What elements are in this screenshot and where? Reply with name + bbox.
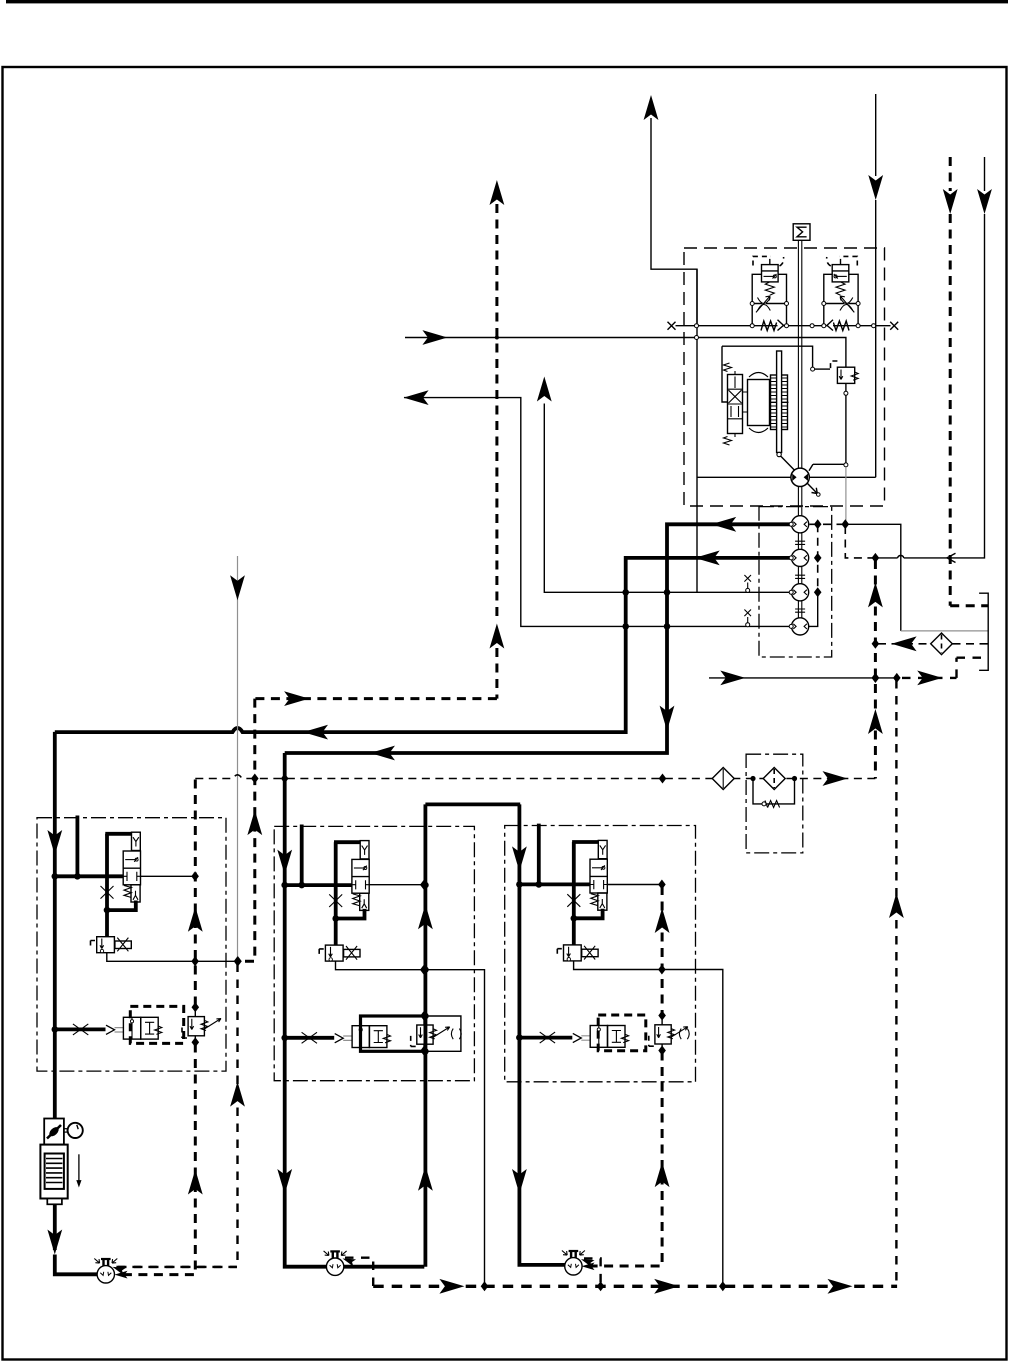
- node filter outlet: [792, 776, 797, 781]
- main variable pump P0: [791, 468, 809, 486]
- wire: block2 rail: [285, 883, 352, 887]
- arrow drain up b3b: [655, 1162, 670, 1187]
- pump group chain enclosure: [759, 507, 832, 657]
- node Pi branch: [842, 519, 850, 529]
- pilot riser vertical: [495, 204, 498, 622]
- wire: block3 supply feed: [519, 804, 565, 1265]
- variable throttle: [758, 298, 771, 311]
- drain column block1: [117, 780, 196, 1275]
- node pilot x662: [659, 774, 667, 784]
- junction node: [622, 623, 629, 630]
- arrow into motor M1: [111, 1263, 126, 1275]
- wire: drain D to node: [877, 557, 898, 559]
- drain wire to bracket: [902, 658, 988, 678]
- block 1 internals: [55, 832, 221, 1047]
- arrow: pilot up: [868, 582, 883, 607]
- node on pilot main: [872, 553, 880, 563]
- node Pi-P2: [814, 553, 822, 563]
- wire: regulator pilot rail: [676, 325, 891, 327]
- arrow: return up b2b: [418, 1166, 433, 1191]
- fan motor M2: [324, 1251, 347, 1276]
- node Pi-P3: [814, 587, 822, 597]
- arrow on P1 line: [711, 517, 736, 532]
- servo cylinder body: [748, 380, 770, 426]
- arrow: line A to other sheet (up): [644, 95, 659, 120]
- gear pump P1: [792, 516, 809, 533]
- node Pi-P1: [814, 519, 822, 529]
- cooler bypass valve: [44, 1119, 64, 1145]
- pilot wire C vertical: [949, 214, 952, 606]
- pressure reducing valve unit (left): [750, 256, 788, 327]
- dashed bracket: [753, 256, 771, 265]
- arrow: pilot drop up: [247, 810, 262, 835]
- junction block3 rail: [516, 881, 523, 888]
- wire: line A from regulator housing: [651, 118, 697, 323]
- wire: P4 drain stub: [809, 592, 818, 626]
- wire hop over vertical line: [898, 555, 904, 557]
- arrow on P2 line: [695, 551, 720, 566]
- connector bracket to other sheet: [979, 593, 988, 670]
- wire: servo feedback lines: [722, 346, 813, 402]
- gear pump P2: [792, 549, 809, 566]
- drain wire motor M1 upper: [118, 1266, 237, 1268]
- valve square: [762, 265, 779, 282]
- node pilot x255: [251, 774, 259, 784]
- arrow: P4 line left: [404, 390, 429, 405]
- circles on rail: [750, 324, 754, 328]
- arrow on pilot link: [284, 691, 309, 706]
- wire: external pilot line to relief: [405, 338, 846, 368]
- pilot supply wire y778: [195, 775, 875, 779]
- wire: P4 line: [404, 398, 791, 627]
- block1 valve dashed box: [130, 1006, 183, 1043]
- arrow: drain wire D down: [977, 189, 992, 214]
- regulator dashed enclosure: [684, 248, 885, 506]
- bypass valve poppet: [762, 802, 766, 806]
- drain wire motor M3 upper: [584, 1259, 601, 1287]
- arrow: pilot riser to top: [490, 180, 505, 205]
- drain wire D vertical and left run: [949, 214, 985, 558]
- fan motor M1: [94, 1259, 117, 1284]
- wire: drain line y678: [709, 677, 897, 679]
- block 2 internals: [284, 841, 450, 1056]
- block2 valve solid box: [361, 1016, 426, 1051]
- wire: filter bypass loop: [753, 779, 795, 804]
- wire: drain extension b1: [197, 960, 238, 962]
- unit outline: [752, 274, 786, 325]
- block2 relief box extension: [426, 1016, 461, 1051]
- fan valve block 1 enclosure: [37, 818, 226, 1071]
- node bus-block2 drain: [481, 1281, 489, 1291]
- port circle on rail: [872, 324, 876, 328]
- port P1: [789, 522, 793, 526]
- faint drain wire x237: [237, 556, 239, 959]
- port P2: [789, 556, 793, 560]
- arrow bus 1: [439, 1279, 464, 1294]
- feedback rod pivot: [777, 452, 781, 456]
- wire: P2 delivery line: [55, 558, 793, 732]
- junction node: [622, 589, 629, 596]
- pressure reducing valve unit (right, mirrored): [822, 256, 860, 327]
- arrow: feed down block3 lower: [512, 1169, 527, 1194]
- arrow: pilot up 2: [868, 709, 883, 734]
- arrow on P1 line left: [370, 746, 395, 761]
- arrow: feed down block2 lower: [277, 1169, 292, 1194]
- arrow into motor M3 case: [582, 1262, 595, 1270]
- pilot wire Pi branch down: [845, 526, 873, 558]
- wire: block1 supply feed: [53, 732, 57, 1120]
- junction on pilot line: [495, 336, 499, 340]
- node pilot x285: [281, 774, 289, 784]
- wire: P3 line: [544, 404, 791, 593]
- arrow: drain down: [230, 575, 245, 600]
- node bus-motor3 drain: [597, 1281, 605, 1291]
- port circle servo: [811, 367, 815, 371]
- drain wire from bracket: [953, 643, 989, 645]
- wire: line B down to pump line: [875, 200, 877, 477]
- drive shaft seg2: [798, 486, 801, 516]
- wire: block2 port stub: [300, 825, 304, 886]
- arrow: external pilot input: [422, 330, 447, 345]
- arrow: line B down: [868, 175, 883, 200]
- drain column block3: [582, 886, 662, 1266]
- wire: block1 port stub: [76, 816, 80, 877]
- node pilot-filter line: [872, 639, 880, 649]
- arrow bus 2: [654, 1279, 679, 1294]
- drive shaft upper: [798, 240, 801, 468]
- node filter inlet: [750, 776, 755, 781]
- arrow into motor M1 case: [115, 1271, 128, 1279]
- fan valve block 2 enclosure: [274, 826, 474, 1080]
- arrow into motor M2 case: [341, 1255, 356, 1267]
- arrow: drain up: [230, 1082, 245, 1107]
- pilot wire Pi vertical: [817, 524, 819, 592]
- servo piston springs: [771, 378, 788, 427]
- wire: Pi tap to drain corner: [847, 524, 901, 631]
- junction block1 rail: [52, 873, 59, 880]
- stem: [769, 259, 771, 265]
- drive shaft seg3: [798, 533, 801, 584]
- plugged port X right: [890, 322, 898, 330]
- pilot supply main vertical: [874, 560, 877, 779]
- node drain x237: [234, 956, 242, 966]
- wire: drain D toward pump group: [904, 557, 947, 559]
- filter F2: [931, 633, 953, 655]
- junction block2 rail: [281, 882, 288, 889]
- wire: regulator housing left edge: [696, 269, 698, 592]
- drain wire to motor M1: [116, 964, 238, 1267]
- wire: bridge to block3: [425, 803, 520, 807]
- arrow into motor M3 top: [580, 1256, 595, 1268]
- port P4: [789, 624, 793, 628]
- wire: P1 delivery line: [285, 524, 794, 753]
- arrow on P1 line down: [660, 706, 675, 731]
- wire: faint drain to bracket: [901, 630, 988, 632]
- servo pilot spool valve: [728, 375, 743, 434]
- variable displacement arrow: [781, 456, 818, 494]
- arrow: to motor M1: [47, 1230, 62, 1255]
- fan valve block 3 enclosure: [505, 826, 696, 1082]
- node drain-pilot: [872, 673, 880, 683]
- pilot relief valve (regulator): [837, 367, 854, 383]
- drain wire to filter F2: [878, 643, 931, 645]
- wire: stub to pilot relief: [815, 368, 830, 370]
- plugged test ports: [744, 575, 751, 623]
- wire: cooler outlet: [53, 1204, 57, 1250]
- arrow drain up b1b: [188, 1170, 203, 1195]
- pilot filter enclosure: [746, 754, 803, 853]
- block 3 internals: [522, 840, 688, 1055]
- arrow: pilot riser mid: [490, 624, 505, 649]
- block3 valve dashed box: [598, 1015, 646, 1051]
- node bus-block3 drain: [719, 1281, 727, 1291]
- drain wire D from top: [984, 157, 986, 191]
- air flow arrow: [78, 1154, 80, 1182]
- oil cooler core: [45, 1154, 64, 1189]
- shaft coupling ticks: [795, 541, 805, 612]
- arrow: return up: [889, 893, 904, 918]
- arrow: drain right: [917, 671, 942, 686]
- rail spring-check symbols: [761, 320, 849, 331]
- fan motor M3: [562, 1251, 585, 1276]
- pilot filter F1: [763, 768, 785, 790]
- port circle on rail: [695, 324, 699, 328]
- open arrowhead on drain wire D: [947, 553, 956, 562]
- port circle on rail: [810, 324, 814, 328]
- port circle on pilot line: [695, 336, 699, 340]
- pilot wire Pi from P1: [810, 523, 844, 525]
- wire: bottom drain bus: [373, 1285, 897, 1288]
- plugged port X left: [668, 322, 676, 330]
- wire: block1 rail: [55, 874, 123, 878]
- return wire x896: [895, 680, 897, 1286]
- arrow: feed down block2: [277, 850, 292, 875]
- gear pump P3: [792, 584, 809, 601]
- arrow: feed down block3: [512, 846, 527, 871]
- arrow: drain left: [892, 636, 917, 651]
- drive shaft seg4: [798, 601, 801, 618]
- oil cooler body: [40, 1145, 67, 1199]
- arrow: pilot supply right: [823, 771, 848, 786]
- check valve V5: [712, 768, 734, 790]
- spring below: [765, 282, 774, 295]
- page header bar: [6, 0, 1008, 3]
- node drain junction: [234, 956, 242, 966]
- wire: block2 supply feed: [285, 753, 425, 1267]
- temperature gauge G1: [68, 1123, 83, 1138]
- pilot link wire y698: [255, 697, 497, 700]
- arrow: P3 line up: [537, 377, 552, 402]
- servo piston housing: [771, 375, 788, 430]
- arrow drain up b1a: [188, 907, 203, 932]
- arrow on drain line: [720, 671, 745, 686]
- wire: block3 drain to bus: [664, 970, 723, 1287]
- wire: to motor M1: [55, 1255, 97, 1275]
- wire: block3 port stub: [537, 824, 541, 885]
- bypass valve spring: [765, 801, 780, 808]
- pilot riser lower: [495, 648, 498, 699]
- wire: block3 rail: [519, 883, 590, 887]
- arrow drain up b3a: [655, 908, 670, 933]
- node drain-return: [893, 673, 901, 683]
- servo feedback rod: [777, 351, 782, 453]
- wire: pump P0 suction rail: [697, 476, 876, 478]
- drain wire motor M2: [345, 1258, 373, 1287]
- port P3: [789, 590, 793, 594]
- sigma glyph: [797, 227, 807, 237]
- arrow: return up b2a: [418, 904, 433, 929]
- engine summation box E1: [793, 224, 810, 241]
- mid line with circles: [752, 303, 786, 305]
- arrow: feed down block1: [47, 830, 62, 855]
- pilot drop wire x255: [240, 699, 255, 962]
- cooler outlet stub: [47, 1199, 62, 1205]
- wire: line B return from top: [875, 94, 877, 176]
- gear pump P4: [792, 618, 809, 635]
- pilot wire C to connector bracket: [950, 604, 988, 607]
- arrow on P2 line left: [303, 725, 328, 740]
- wire: block2 drain to bus: [425, 970, 484, 1287]
- arrow bus 3: [828, 1279, 853, 1294]
- cooler fins: [46, 1159, 62, 1183]
- arrow: pilot wire C down: [943, 189, 958, 214]
- gauge tap: [64, 1129, 67, 1132]
- pilot wire C from top: [949, 157, 952, 191]
- wire: block2 return column: [423, 804, 427, 1266]
